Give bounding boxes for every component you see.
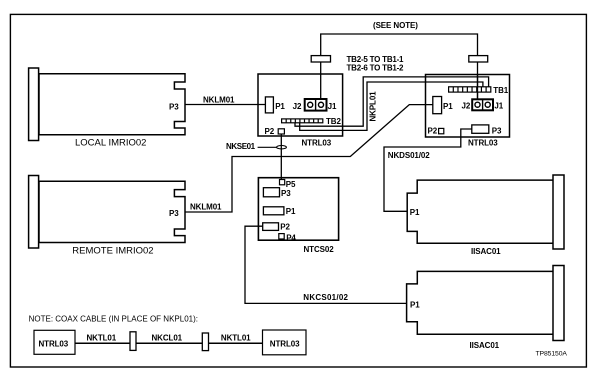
inline connector (note, right) — [202, 333, 208, 351]
jumper block J2/J1 (left NTRL03) — [305, 99, 327, 111]
svg-text:(SEE NOTE): (SEE NOTE) — [373, 21, 418, 30]
svg-text:P2: P2 — [428, 127, 438, 136]
svg-text:NKCL01: NKCL01 — [152, 333, 183, 342]
svg-text:TB2-6 TO TB1-2: TB2-6 TO TB1-2 — [347, 63, 405, 72]
wire NKTL01 (left) — [75, 342, 130, 344]
svg-text:NTCS02: NTCS02 — [304, 245, 335, 254]
svg-text:P3: P3 — [169, 102, 179, 111]
svg-text:P1: P1 — [410, 208, 420, 217]
svg-text:NKSE01: NKSE01 — [226, 142, 256, 151]
wire SEE-NOTE cable: left NTRL03 J1 to right NTRL03 J2 — [321, 34, 478, 100]
connector P3 (right NTRL03) — [472, 125, 489, 133]
jumper block J2/J1 (right NTRL03) — [472, 99, 493, 110]
svg-text:REMOTE IMRIO02: REMOTE IMRIO02 — [72, 245, 153, 256]
inline connector on left SEE-NOTE drop — [311, 56, 330, 62]
inline connector on right SEE-NOTE drop — [469, 56, 488, 62]
box NTCS02 — [258, 178, 338, 241]
svg-text:IISAC01: IISAC01 — [470, 341, 500, 350]
body of REMOTE IMRIO02 — [39, 181, 185, 242]
terminal block TB2 — [281, 118, 323, 123]
svg-text:NKTL01: NKTL01 — [221, 333, 251, 342]
svg-text:P1: P1 — [410, 300, 420, 309]
body of IISAC01 upper with P1 bump — [407, 180, 553, 243]
svg-text:NKCS01/02: NKCS01/02 — [303, 293, 348, 302]
pin square P2 (right NTRL03) — [439, 128, 444, 133]
wire NKPL01 line B: TB2 to TB1 (inner) — [300, 82, 483, 130]
pin square P5 — [280, 180, 285, 185]
svg-text:J1: J1 — [328, 102, 337, 111]
svg-text:NKPL01: NKPL01 — [368, 91, 377, 122]
connector P1 (right NTRL03) — [433, 97, 442, 114]
body of IISAC01 lower with P1 bump — [407, 271, 553, 334]
wire NKLM01 remote: REMOTE IMRIO02 P3 to right NTRL03 P1 — [185, 105, 433, 212]
pin square P4 — [279, 234, 284, 239]
connector bar of LOCAL IMRIO02 — [29, 68, 39, 141]
box left NTRL03 — [258, 74, 343, 136]
box NTRL03 (note left) — [34, 330, 75, 354]
svg-text:P3: P3 — [281, 189, 291, 198]
connector P2 (NTCS02) — [263, 223, 279, 231]
svg-text:P2: P2 — [280, 223, 290, 232]
wire SEE-NOTE drop into J2 (over TB1) — [477, 75, 479, 100]
svg-text:TB2: TB2 — [326, 117, 341, 126]
pin square P2 (left NTRL03) — [278, 129, 284, 134]
svg-text:NKLM01: NKLM01 — [190, 203, 222, 212]
svg-text:NKDS01/02: NKDS01/02 — [388, 151, 430, 160]
svg-text:NTRL03: NTRL03 — [302, 139, 332, 148]
svg-text:TB1: TB1 — [493, 86, 508, 95]
svg-text:LOCAL IMRIO02: LOCAL IMRIO02 — [75, 137, 146, 148]
wire NKTL01 (right) — [209, 342, 263, 344]
connector P1 (NTCS02) — [263, 207, 284, 215]
svg-text:NTRL03: NTRL03 — [468, 139, 498, 148]
svg-text:NOTE: COAX CABLE (IN PLACE OF: NOTE: COAX CABLE (IN PLACE OF NKPL01): — [29, 314, 198, 323]
wire NKSE01: left NTRL03 P2 to NTCS02 P5 — [280, 134, 282, 180]
svg-text:P1: P1 — [286, 207, 296, 216]
svg-text:J2: J2 — [462, 102, 471, 111]
svg-text:P3: P3 — [169, 209, 179, 218]
terminal block TB1 — [448, 86, 491, 93]
box right NTRL03 — [426, 75, 510, 138]
wire NKDS01/02: right NTRL03 P3 to IISAC01 upper P1 — [384, 129, 472, 211]
svg-text:P1: P1 — [443, 102, 453, 111]
connector bar of IISAC01 upper — [553, 175, 564, 249]
connector bar of REMOTE IMRIO02 — [29, 176, 39, 249]
svg-text:P3: P3 — [492, 126, 502, 135]
connector P1 (left NTRL03) — [265, 97, 273, 113]
svg-text:J1: J1 — [494, 102, 503, 111]
wire NKCS01/02: NTCS02 P2 to IISAC01 lower P1 — [245, 226, 407, 303]
svg-text:J2: J2 — [293, 102, 302, 111]
body of LOCAL IMRIO02 — [39, 74, 185, 135]
svg-text:NTRL03: NTRL03 — [270, 339, 300, 348]
svg-text:IISAC01: IISAC01 — [471, 247, 501, 256]
connector P3 (NTCS02) — [263, 188, 279, 197]
svg-text:TP85150A: TP85150A — [536, 351, 568, 358]
wire NKLM01 local: LOCAL IMRIO02 P3 to left NTRL03 P1 — [185, 104, 265, 106]
cable marker ellipse on NKSE01 — [277, 146, 287, 149]
connector bar of IISAC01 lower — [553, 266, 564, 341]
svg-text:NKTL01: NKTL01 — [87, 333, 117, 342]
wire NKCL01 — [136, 342, 202, 344]
svg-text:NKLM01: NKLM01 — [203, 95, 235, 104]
svg-text:P4: P4 — [286, 233, 296, 242]
svg-text:P2: P2 — [265, 127, 275, 136]
inline connector (note, left) — [130, 332, 136, 351]
svg-text:P1: P1 — [275, 102, 285, 111]
box NTRL03 (note right) — [263, 330, 307, 355]
wire NKPL01 line A: TB2 to TB1 (outer) — [295, 77, 489, 126]
svg-text:NTRL03: NTRL03 — [39, 339, 69, 348]
svg-text:P5: P5 — [286, 180, 296, 189]
